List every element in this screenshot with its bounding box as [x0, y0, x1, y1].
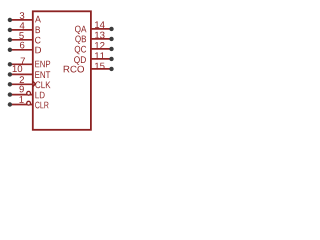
pin number 10	[13, 65, 23, 72]
node dot pin 12	[109, 47, 113, 51]
pin label RCO	[64, 66, 84, 73]
node dot pin 1	[8, 102, 12, 106]
node dot pin 9	[8, 92, 12, 96]
wire pin 13 (QB)	[91, 38, 112, 40]
pin label A	[35, 16, 41, 23]
wire pin 15 (RCO)	[91, 68, 112, 70]
node dot pin 6	[8, 48, 12, 52]
wire pin 2 (CLK)	[10, 83, 33, 85]
inversion bubble pin 9	[27, 91, 31, 95]
pin number 12	[95, 42, 104, 49]
pin label QB	[75, 36, 86, 45]
wire pin 11 (QD)	[91, 58, 112, 60]
pin number 11	[95, 52, 104, 59]
clock triangle pin 2	[33, 81, 35, 86]
pin number 2	[20, 76, 24, 83]
pin number 9	[19, 86, 23, 93]
node dot pin 3	[8, 18, 12, 22]
wire pin 9 (LD)	[10, 94, 33, 96]
pin number 5	[19, 32, 24, 39]
pin number 6	[20, 42, 24, 49]
node dot pin 7	[8, 62, 12, 66]
pin label ENT	[35, 71, 50, 78]
pin number 3	[20, 12, 25, 19]
pin number 1	[19, 96, 23, 103]
node dot pin 11	[109, 57, 113, 61]
node dot pin 13	[109, 37, 113, 41]
pin label QA	[75, 26, 86, 35]
wire pin 3 (A)	[10, 19, 33, 21]
pin label CLR	[35, 102, 48, 109]
pin number 15	[95, 63, 105, 70]
wire pin 12 (QC)	[91, 48, 112, 50]
pin label LD	[35, 92, 44, 99]
wire pin 7 (ENP)	[10, 63, 33, 65]
node dot pin 15	[109, 67, 113, 71]
wire pin 14 (QA)	[91, 28, 112, 30]
node dot pin 4	[8, 28, 12, 32]
pin label QC	[75, 46, 87, 55]
node dot pin 10	[8, 72, 12, 76]
pin number 13	[95, 32, 105, 39]
wire pin 6 (D)	[10, 49, 33, 51]
pin label CLK	[35, 81, 50, 88]
wire pin 4 (B)	[10, 29, 33, 31]
pin label D	[35, 47, 41, 54]
pin label QD	[74, 56, 86, 65]
pin number 14	[95, 21, 105, 28]
pin label ENP	[35, 61, 50, 68]
inversion bubble pin 1	[27, 101, 31, 105]
wire pin 1 (CLR)	[10, 104, 33, 106]
node dot pin 2	[8, 82, 12, 86]
pin label B	[36, 27, 40, 34]
node dot pin 14	[109, 27, 113, 31]
node dot pin 5	[8, 38, 12, 42]
wire pin 5 (C)	[10, 39, 33, 41]
pin number 7	[21, 58, 25, 65]
pin number 4	[20, 22, 25, 29]
IC body U1 (74161-style synchronous counter)	[33, 11, 91, 130]
pin label C	[35, 37, 41, 44]
wire pin 10 (ENT)	[10, 73, 33, 75]
